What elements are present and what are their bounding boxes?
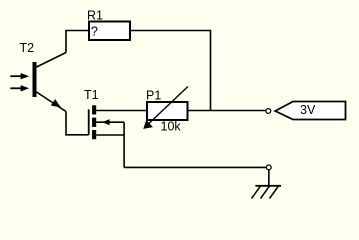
light arrow 2 into T2 xyxy=(10,85,29,91)
svg-text:R1: R1 xyxy=(87,8,103,22)
svg-text:10k: 10k xyxy=(161,120,182,134)
ground symbol xyxy=(252,186,282,199)
transistor T2 (phototransistor) xyxy=(33,53,67,112)
terminal circle at ground xyxy=(266,165,271,170)
svg-text:3V: 3V xyxy=(300,103,316,117)
transistor T1 (n-channel MOSFET) xyxy=(89,105,110,139)
wire T1 drain to P1 xyxy=(96,110,147,112)
wire terminal to ground symbol xyxy=(268,170,270,186)
wire R1 to node at P1 output xyxy=(130,31,211,111)
wire rail to ground terminal xyxy=(124,166,266,168)
wire T2 emitter to T1 gate xyxy=(66,112,89,135)
svg-text:T2: T2 xyxy=(20,41,35,55)
terminal circle at 3V xyxy=(266,109,271,114)
svg-text:T1: T1 xyxy=(84,88,99,102)
wire T2 collector to R1 xyxy=(66,31,89,53)
wire P1 to 3V terminal xyxy=(188,110,266,112)
svg-text:?: ? xyxy=(91,23,98,38)
svg-text:P1: P1 xyxy=(146,88,161,102)
light arrow 1 into T2 xyxy=(10,73,29,79)
supply flag 3V xyxy=(275,102,345,120)
wire source rail down xyxy=(123,122,125,167)
wire T1 bulk to source rail xyxy=(96,121,124,123)
wire T1 source to rail xyxy=(96,134,124,136)
resistor R1 xyxy=(89,22,130,41)
potentiometer P1 xyxy=(143,87,188,129)
